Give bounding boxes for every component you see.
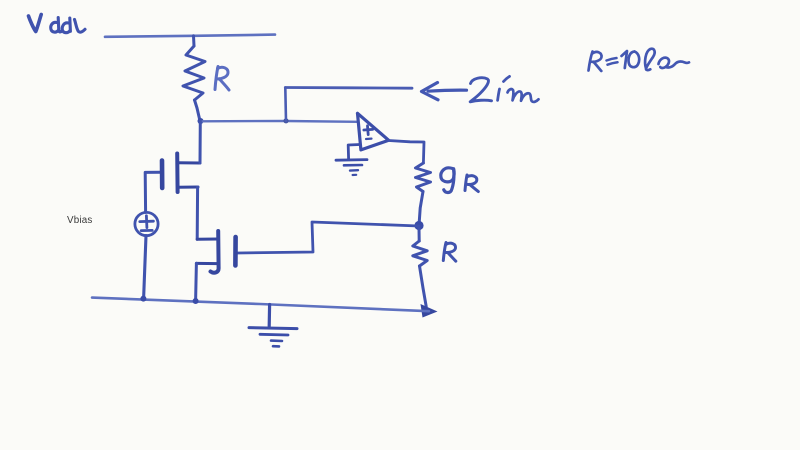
wire M1 gate to V1 [145, 172, 161, 212]
wire inverting input to ground [348, 145, 360, 160]
op-amp U1 [348, 113, 389, 159]
junction V1 wire on rail [140, 296, 146, 302]
junction on wire at x=286 [283, 118, 288, 123]
drain lead [178, 161, 200, 164]
voltage source V1 (Vbias) [135, 212, 158, 235]
wire V1 to bottom rail [144, 236, 146, 299]
gate bar [233, 237, 238, 266]
wire node B to M2 gate [238, 222, 420, 253]
transistor M2 (NMOS, gate on right) [196, 231, 235, 273]
label Zin (handwritten) [470, 76, 538, 102]
ground (op-amp inverting input) [336, 160, 367, 175]
source lead [178, 186, 198, 189]
arrow pointing left (Zin annotation) [422, 83, 467, 100]
wire M1 drain to node A [199, 121, 202, 163]
plus input marker [366, 126, 370, 135]
drain lead [197, 238, 218, 241]
node B: junction of 9R, R2 and feedback wire [414, 221, 423, 230]
label Vdd (handwritten) [29, 15, 86, 33]
transistor M1 (PMOS, top left) [162, 154, 200, 193]
wire vertical from node to Zin probe line [284, 88, 287, 122]
minus input marker [366, 138, 372, 141]
gate bar [160, 161, 165, 189]
resistor R2 (bottom right, value R) [413, 228, 427, 307]
resistor R3 (value 9R) [416, 163, 431, 223]
label Vbias (typed) [67, 215, 93, 226]
source lead [196, 262, 218, 265]
label R (of R1) [215, 67, 229, 91]
ground (bottom, main) [249, 305, 297, 347]
channel bar [175, 154, 179, 193]
node A: junction of R1 bottom, wire to op-amp, M1 drain [198, 118, 204, 124]
resistor R1 (top, value R) [183, 36, 205, 121]
junction M2 source on rail [193, 298, 199, 304]
wire node A to op-amp noninverting input [200, 120, 358, 123]
wire op-amp output to 9R [389, 141, 425, 164]
channel bar [211, 231, 219, 273]
wire Zin probe line (top horizontal) [285, 86, 412, 89]
wire M1 source to M2 drain [196, 187, 199, 239]
label 9R [441, 168, 478, 193]
wire bottom rail [92, 298, 429, 312]
arrowhead at node C (R2 meets bottom rail) [421, 304, 438, 318]
wire top Vdd rail [105, 35, 275, 37]
wire M2 source to bottom rail [194, 263, 198, 301]
label R = 10k ohm (handwritten, top right) [589, 49, 690, 71]
label R (of R2) [443, 243, 456, 262]
